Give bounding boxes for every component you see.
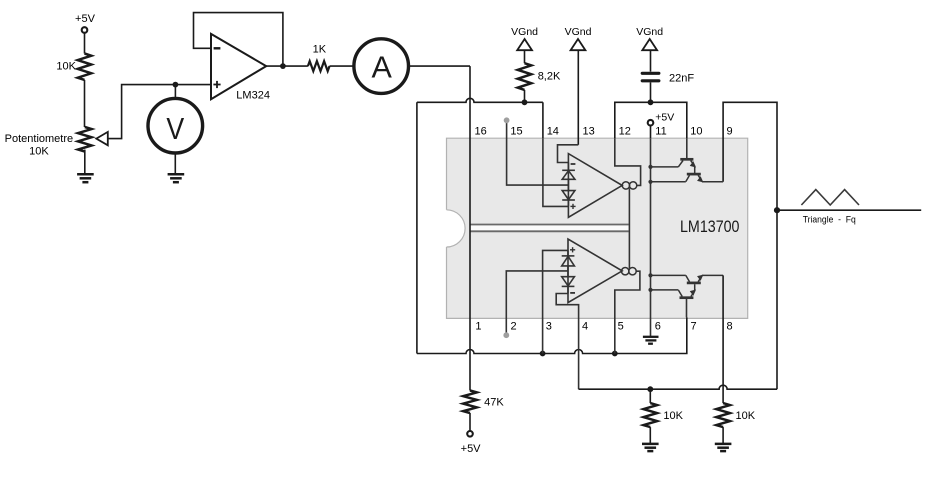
feedback wire opamp output to minus input: [194, 13, 283, 67]
svg-text:6: 6: [655, 321, 661, 333]
wire wiper to opamp + input: [108, 85, 211, 139]
wire pin13 bracket to top OTA minus input: [558, 145, 579, 163]
svg-text:VGnd: VGnd: [636, 26, 663, 38]
op-amp U2 LM324 triangle: [211, 34, 266, 99]
IC middle channel: [470, 225, 629, 232]
OTA2 minus symbol: [570, 292, 575, 294]
OTA2 output current-source circles: [622, 268, 637, 275]
op-amp OTA1 triangle (top): [568, 154, 622, 218]
wire VGnd3 to capacitor: [650, 50, 652, 71]
OTA2 plus symbol: [570, 247, 575, 252]
wire junction to V meter: [174, 85, 176, 99]
transistor Q1 (top darlington, left): [678, 138, 695, 173]
svg-text:1K: 1K: [313, 44, 327, 56]
node junction Q1 base rail: [648, 165, 652, 169]
wire pin11 +5V vertical through chip to pin6: [650, 138, 652, 336]
wire pin15 to OTA1 diode midpoint: [507, 120, 569, 185]
node junction 8,2K on top rail: [522, 99, 528, 105]
wire VGnd1 to 8,2K: [524, 50, 526, 63]
svg-text:Potentiometre: Potentiometre: [5, 133, 73, 145]
wire R 10K to potentiometer: [84, 80, 86, 127]
wire potentiometer to ground: [84, 150, 86, 175]
wire V meter to ground: [174, 153, 176, 174]
wire pin2 to OTA2 diode midpoint: [506, 271, 568, 335]
diode D3 (OTA2 upper): [562, 250, 575, 266]
svg-text:10: 10: [690, 126, 702, 138]
diode D1 (OTA1 upper): [562, 163, 575, 180]
OTA1 output current-source circles: [622, 182, 637, 189]
VGnd symbol 1 (triangle): [517, 39, 532, 50]
resistor R3 8,2K: [518, 63, 532, 90]
svg-text:11: 11: [655, 126, 666, 138]
IC notch: [447, 210, 466, 247]
wire opamp output: [266, 65, 308, 67]
ground (R6): [715, 444, 732, 451]
svg-text:LM324: LM324: [236, 89, 270, 101]
wire +5V to pin11: [650, 126, 652, 138]
wire top rail (VGnd net, hop over pin16 wire): [417, 98, 543, 102]
svg-text:2: 2: [511, 321, 517, 333]
svg-text:47K: 47K: [484, 397, 504, 409]
wire pin14 drop from top rail: [542, 102, 544, 138]
svg-text:V: V: [166, 112, 184, 146]
node junction opamp output: [280, 63, 286, 69]
svg-text:10K: 10K: [56, 61, 76, 73]
svg-text:8: 8: [727, 321, 733, 333]
wire 47K to +5V terminal: [469, 413, 471, 431]
resistor R5 10K: [644, 403, 658, 427]
wire capacitor to node: [650, 82, 652, 102]
transistor Q2 (top darlington, right): [651, 167, 724, 182]
svg-text:VGnd: VGnd: [511, 26, 538, 38]
wire 10K-2 to ground: [722, 427, 724, 444]
wire pin4 bracket to OTA2 minus input: [556, 294, 578, 390]
svg-text:3: 3: [546, 321, 552, 333]
pin numbers top row: [475, 126, 733, 138]
potentiometer P1 10K body: [78, 127, 92, 152]
svg-text:1: 1: [475, 321, 481, 333]
potentiometer wiper arrow: [96, 132, 108, 145]
wire node to 10K-1: [649, 389, 651, 403]
resistor R4 47K: [463, 391, 477, 414]
ground (pin 6): [643, 337, 659, 344]
svg-text:16: 16: [475, 126, 487, 138]
triangle waveform icon: [801, 190, 859, 205]
pin numbers bottom row: [475, 321, 732, 333]
node junction 10K-1 on lower rail: [647, 386, 653, 392]
svg-text:12: 12: [619, 126, 631, 138]
ground (potentiometer): [77, 174, 94, 182]
wire OTA1 output to pin12: [615, 138, 641, 185]
wire pin12 to pin10 top link: [615, 102, 687, 138]
wire lower rail pin4 to right edge (hop over pin8 wire): [579, 385, 777, 389]
node junction Q2 base rail: [648, 180, 652, 184]
svg-text:+5V: +5V: [461, 443, 482, 455]
+5V terminal circle pin11: [648, 120, 654, 126]
+5V terminal circle top-left: [82, 27, 88, 33]
node junction 22nF pin12 pin10: [648, 99, 654, 105]
svg-text:10K: 10K: [663, 410, 683, 422]
op-amp minus symbol: [214, 47, 221, 49]
unconnected pin2 dot: [503, 332, 509, 338]
diode D4 (OTA2 lower): [562, 266, 575, 294]
node junction Q4 base rail: [648, 288, 652, 292]
svg-text:5: 5: [618, 321, 624, 333]
svg-text:15: 15: [510, 126, 522, 138]
wire 1K to ammeter: [330, 65, 354, 67]
wire +5V to R 10K: [84, 33, 86, 54]
IC U1 LM13700 body: [447, 138, 748, 318]
wire OTA1 output to OTA2 output (interlink): [628, 188, 630, 268]
op-amp plus symbol: [213, 81, 220, 88]
wire OTA2 output to pin5: [615, 271, 640, 353]
node junction Q3 base rail: [648, 273, 652, 277]
node junction output: [774, 207, 780, 213]
svg-text:14: 14: [547, 126, 559, 138]
wire 8,2K to top rail: [524, 90, 526, 102]
diode D2 (OTA1 lower): [562, 179, 575, 206]
svg-text:22nF: 22nF: [669, 73, 694, 85]
svg-text:10K: 10K: [736, 410, 756, 422]
svg-text:+5V: +5V: [75, 13, 96, 25]
node junction pin5 on bottom rail: [612, 351, 618, 357]
svg-text:10K: 10K: [29, 145, 49, 157]
OTA1 plus symbol: [570, 204, 575, 209]
unconnected pin15 dot: [504, 117, 510, 123]
svg-text:9: 9: [727, 126, 733, 138]
resistor R6 10K: [716, 403, 730, 427]
wire bottom rail (hops over pin1 and pin4 wires): [417, 317, 687, 353]
transistor Q3 (bottom darlington, right): [651, 275, 724, 283]
ground (R5): [642, 444, 659, 451]
svg-text:4: 4: [582, 321, 588, 333]
resistor 10K (top-left): [78, 54, 92, 80]
wire 10K-1 to ground: [649, 427, 651, 444]
svg-text:8,2K: 8,2K: [538, 71, 561, 83]
svg-text:Triangle - Fq: Triangle - Fq: [803, 215, 856, 225]
wire ammeter to pin16 line: [409, 65, 471, 67]
VGnd symbol 3 (triangle): [642, 39, 657, 50]
wire pin8 down to 10K: [722, 275, 724, 403]
capacitor C1 22nF: [642, 73, 659, 81]
op-amp OTA2 triangle (bottom): [568, 239, 622, 303]
svg-text:7: 7: [691, 321, 697, 333]
wire ammeter pin16 pin1 47K vertical: [469, 66, 471, 390]
wire pin9 to output node: [723, 102, 777, 389]
ground (V meter): [168, 174, 185, 182]
svg-text:13: 13: [583, 126, 595, 138]
OTA1 minus symbol: [571, 163, 576, 165]
wire outer box left edge: [416, 102, 418, 353]
wire pin14 to OTA1 plus input: [543, 138, 569, 206]
+5V terminal circle bottom: [467, 431, 473, 437]
voltmeter V: [148, 98, 203, 153]
svg-text:VGnd: VGnd: [565, 26, 592, 38]
node junction V meter: [173, 82, 179, 88]
wire VGnd2 to pin13: [577, 50, 579, 145]
svg-text:+5V: +5V: [655, 111, 674, 123]
svg-text:LM13700: LM13700: [680, 218, 740, 236]
ammeter A: [354, 39, 409, 94]
wire pin3 to OTA2 plus input: [543, 250, 568, 353]
svg-text:A: A: [372, 50, 393, 84]
transistor Q4 (bottom darlington, left): [651, 284, 696, 317]
VGnd symbol 2 (triangle): [571, 39, 586, 50]
node junction pin3 on bottom rail: [540, 351, 546, 357]
wire output horizontal: [777, 209, 921, 211]
resistor R2 1K: [308, 61, 330, 71]
